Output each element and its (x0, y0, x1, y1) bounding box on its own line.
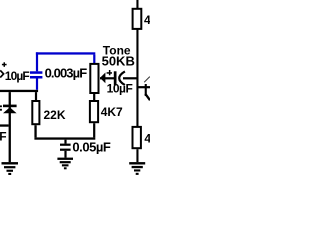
wire right rail top (136, 0, 138, 9)
wire bus lower (34, 137, 95, 139)
transistor Q1 base lead (139, 86, 151, 88)
wire bus upper-left (0, 90, 38, 92)
svg-text:4K7: 4K7 (101, 105, 123, 119)
ground (right) (129, 162, 145, 175)
svg-text:22K: 22K (44, 108, 66, 122)
ground (left) (2, 162, 19, 175)
svg-text:47K: 47K (144, 132, 150, 146)
edge fragment dashes (0, 105, 2, 110)
diode D1 (cathode bar + arrow) (3, 105, 17, 114)
wiper arrow (100, 73, 115, 84)
resistor R4 47K bottom (133, 127, 141, 148)
svg-text:47K: 47K (144, 13, 150, 27)
transistor Q1 emitter lead (145, 94, 150, 100)
svg-text:0.05µF: 0.05µF (72, 140, 111, 155)
wire right rail middle (136, 29, 138, 127)
wire stub from left edge (0, 124, 9, 126)
svg-text:F: F (0, 130, 7, 144)
wire cap to right rail (123, 77, 137, 79)
resistor R1 22K (32, 101, 39, 124)
ground (middle) (57, 158, 73, 170)
plus sign for 10uF left (2, 62, 7, 67)
capacitor C1 0.003uF (blue) (30, 71, 42, 90)
wire left vertical (9, 92, 11, 162)
capacitor C2 0.05uF (60, 140, 71, 158)
transistor Q1 collector lead (144, 77, 150, 83)
wire pot to 4K7 (93, 93, 95, 101)
wire blue horizontal (36, 52, 95, 54)
plus sign for 10uF right (107, 70, 112, 75)
svg-text:10µF: 10µF (5, 69, 30, 83)
wire 22K bottom (34, 125, 36, 137)
wire blue vertical left (36, 52, 38, 71)
wire right rail lower (136, 149, 138, 162)
potentiometer Tone 50KB body (90, 64, 98, 93)
wire 22K top (35, 92, 37, 100)
capacitor C-in 10uF fragment (curved plate, left edge) (0, 70, 3, 77)
resistor R3 47K top (133, 9, 142, 29)
svg-text:10µF: 10µF (107, 81, 133, 95)
resistor R2 4K7 (90, 101, 98, 122)
capacitor C3 10uF (electrolytic) (114, 71, 125, 85)
wire 4K7 bottom (93, 123, 95, 137)
svg-text:50KB: 50KB (102, 54, 135, 69)
wire blue vertical right (93, 55, 95, 63)
transistor Q1 base bar (145, 84, 147, 96)
svg-text:0.003µF: 0.003µF (45, 65, 88, 80)
